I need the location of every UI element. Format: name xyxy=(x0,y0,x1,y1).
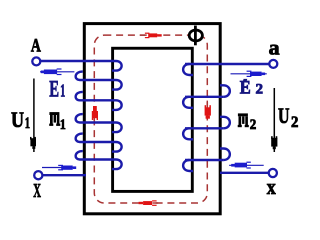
wire: left coil right hook turn 3 xyxy=(112,100,122,110)
terminal x xyxy=(269,169,277,177)
wire: right coil front line turn 3 xyxy=(185,127,223,129)
current arrow on X lead pointing right xyxy=(42,165,76,171)
E2 emf arrow pointing right xyxy=(231,71,267,77)
svg-text:2: 2 xyxy=(256,82,264,98)
wire: right coil right hook turn 3 xyxy=(220,117,230,129)
svg-text:E: E xyxy=(49,76,59,101)
flux arrow right limb pointing down xyxy=(205,105,211,119)
E1 emf arrow pointing left xyxy=(40,68,74,75)
flux path (dashed red loop inside core) xyxy=(94,35,207,203)
wire: left coil right hook turn 1 xyxy=(112,61,122,71)
flux arrow bottom pointing left xyxy=(139,200,157,206)
label W1 xyxy=(49,112,60,126)
wire: right coil front line turn 2 xyxy=(185,96,223,98)
wire: right coil left hook turn 1 xyxy=(183,64,193,75)
svg-text:1: 1 xyxy=(25,115,30,132)
svg-text:E: E xyxy=(240,79,251,99)
wire: right coil left hook turn 3 xyxy=(183,128,193,139)
LEFT COIL primary winding W1 xyxy=(40,61,122,175)
current arrow on x lead pointing left xyxy=(229,162,264,169)
U1 voltage arrow line xyxy=(33,79,35,153)
wire: right coil left hook turn 2 xyxy=(183,97,193,108)
U2 voltage arrow line xyxy=(273,88,275,152)
wire: left coil right hook turn 6 xyxy=(112,160,122,170)
wire: lead from terminal a / front turn 1 xyxy=(185,63,269,65)
wire: left coil right hook turn 2 xyxy=(112,80,122,90)
flux arrow left limb pointing up xyxy=(92,106,98,120)
U2 arrowhead down xyxy=(271,136,277,149)
wire: left coil left hook + front line turn 5 xyxy=(76,134,116,142)
svg-text:1: 1 xyxy=(60,117,66,133)
svg-text:2: 2 xyxy=(250,117,257,133)
wire: left coil left hook + front line turn 2 xyxy=(76,72,116,80)
RIGHT COIL secondary winding W2 xyxy=(183,64,268,173)
wire: left coil left hook + front line turn 4 xyxy=(76,114,116,122)
core outer rectangle xyxy=(84,24,220,214)
wire: lead from terminal A / front turn 1 xyxy=(40,60,116,62)
phi flux symbol xyxy=(189,26,202,46)
core inner window xyxy=(113,48,193,191)
svg-text:x: x xyxy=(267,174,276,199)
svg-text:X: X xyxy=(33,181,41,202)
svg-text:1: 1 xyxy=(60,81,65,101)
wire: right coil front line turn 4 xyxy=(185,159,223,161)
svg-text:U: U xyxy=(278,103,290,128)
U1 arrowhead down xyxy=(30,137,36,149)
wire: left coil right hook turn 4 xyxy=(112,123,122,133)
svg-text:2: 2 xyxy=(291,114,298,131)
wire: left coil left hook + front line turn 3 xyxy=(76,92,116,100)
flux line stubs at arrows xyxy=(94,34,208,203)
wire: right coil left hook turn 4 xyxy=(183,160,193,171)
svg-text:a: a xyxy=(269,36,281,60)
wire: lead to terminal x xyxy=(220,172,268,174)
svg-text:A: A xyxy=(31,36,41,57)
svg-text:U: U xyxy=(11,107,24,132)
terminal X xyxy=(34,171,42,179)
flux arrow top pointing right xyxy=(145,33,162,39)
label W2 xyxy=(238,113,249,127)
wire: right coil right hook turn 2 xyxy=(220,85,230,97)
terminal A xyxy=(32,57,40,65)
terminal a xyxy=(269,60,277,68)
wire: left coil left hook + front line turn 6 xyxy=(76,151,116,159)
wire: lead to terminal X xyxy=(41,174,86,176)
wire: right coil right hook turn 4 xyxy=(220,149,230,161)
wire: left coil right hook turn 5 xyxy=(112,142,122,152)
